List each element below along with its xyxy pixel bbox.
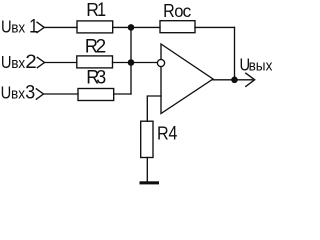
- label Roc: [163, 0, 191, 21]
- label R2: [85, 35, 106, 57]
- junction node output: [231, 77, 238, 84]
- label R1: [86, 0, 106, 20]
- wire input3 to R3: [44, 93, 79, 95]
- wire op-amp output to arrow: [213, 79, 253, 81]
- label Uvx2: [1, 51, 37, 72]
- junction node B (summing point row): [128, 59, 135, 66]
- svg-text:вх: вх: [11, 85, 25, 101]
- svg-text:вых: вых: [249, 57, 273, 73]
- svg-text:4: 4: [169, 122, 178, 144]
- resistor R3: [78, 89, 114, 101]
- input terminal Uvx1 arrow: [37, 22, 44, 32]
- wire R1 to Roc (through node A): [113, 26, 160, 28]
- op-amp inverting input bubble: [157, 59, 164, 66]
- resistor R4: [141, 121, 153, 157]
- label R3: [86, 66, 106, 88]
- wire input1 to R1: [44, 26, 77, 28]
- svg-text:вх: вх: [11, 54, 25, 70]
- wire feedback vertical to output node: [234, 27, 236, 79]
- svg-text:U: U: [1, 83, 12, 102]
- svg-text:U: U: [1, 53, 12, 72]
- svg-text:R: R: [163, 0, 175, 21]
- svg-text:вх: вх: [11, 19, 25, 35]
- resistor R1: [77, 21, 113, 33]
- wire R3 to summing bus: [114, 93, 131, 95]
- label Uvx3: [1, 81, 36, 103]
- output terminal Uvyh arrow: [246, 73, 255, 86]
- input terminal Uvx2 arrow: [37, 57, 44, 67]
- svg-text:3: 3: [96, 66, 106, 88]
- svg-text:2: 2: [25, 51, 36, 72]
- svg-text:с: с: [183, 1, 192, 21]
- wire input2 to R2: [45, 62, 77, 64]
- svg-text:1: 1: [97, 0, 106, 20]
- resistor Roc: [160, 21, 195, 33]
- svg-text:R: R: [157, 122, 169, 143]
- wire R2 to inverting input bubble: [113, 62, 158, 64]
- label R4: [157, 122, 177, 144]
- svg-text:1: 1: [29, 15, 38, 37]
- op-amp U1 triangle: [161, 44, 213, 114]
- ground: [140, 181, 160, 184]
- input terminal Uvx3 arrow: [36, 89, 43, 99]
- svg-text:U: U: [1, 17, 12, 36]
- wire Roc to feedback corner: [195, 26, 235, 28]
- junction node A (R1 row): [128, 24, 135, 31]
- svg-text:2: 2: [96, 37, 107, 58]
- svg-text:3: 3: [25, 81, 35, 103]
- wire R4 to ground: [146, 158, 148, 182]
- label Uvyh: [240, 55, 273, 74]
- resistor R2: [77, 56, 113, 68]
- wire non-inverting input: [147, 96, 161, 121]
- wire summing bus vertical: [130, 27, 132, 94]
- label Uvx1: [1, 15, 38, 37]
